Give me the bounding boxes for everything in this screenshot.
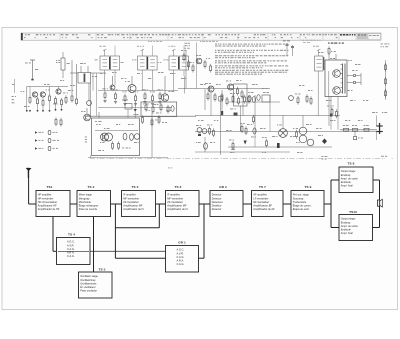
svg-text:TS 8: TS 8 — [348, 161, 355, 165]
emitter rail wire — [98, 107, 172, 109]
transistor TS3 — [161, 76, 174, 101]
diode D1 — [230, 109, 238, 116]
alignment dash — [168, 167, 172, 170]
svg-text:TS 5: TS 5 — [99, 267, 106, 271]
cluster below box A — [142, 115, 168, 124]
transistor TS9 — [333, 87, 341, 95]
transistor TS7 — [226, 81, 234, 91]
wire TS2-TS3 — [111, 203, 122, 205]
wire TS1 to TS4 — [53, 217, 57, 252]
diode dark diamond — [318, 135, 327, 144]
resistor R60 — [262, 137, 268, 148]
symbol legend — [32, 130, 60, 150]
wire GR1 to detector line — [199, 204, 205, 258]
dark labels row top right — [328, 43, 344, 44]
right edge components — [381, 44, 390, 101]
cluster below output box — [327, 106, 338, 119]
block TS5 oscillator — [79, 267, 113, 298]
resistor R56 — [293, 128, 298, 139]
svg-text:TS10: TS10 — [349, 210, 357, 214]
wire output drops — [331, 97, 338, 130]
svg-text:DetectorDetectorDétecteurDetek: DetectorDetectorDétecteurDetektorDetecto… — [212, 193, 223, 211]
electrolytic C40 — [251, 128, 256, 137]
wire speaker to TS10 — [373, 206, 380, 227]
block TS10 output stage — [339, 210, 373, 241]
svg-text:A.G.C.A.V.R.C.A.G.A.R.A.C.A.G.: A.G.C.A.V.R.C.A.G.A.R.A.C.A.G. — [67, 240, 75, 258]
block GR1 AGC rectifier — [166, 241, 199, 272]
aerial input wire — [25, 60, 38, 80]
chassis divider dash-dot — [90, 157, 393, 160]
wire mixer vertical — [151, 112, 153, 158]
legend top resistors — [55, 117, 62, 126]
service notes text — [215, 44, 289, 75]
bias resistor ladder — [102, 88, 162, 105]
driver transformer S5 — [313, 46, 324, 71]
return rail wire — [195, 151, 290, 153]
svg-text:GR 2: GR 2 — [219, 185, 227, 189]
svg-text:TS 2: TS 2 — [88, 185, 95, 189]
thermistor R64 — [229, 140, 235, 151]
pair3 side notes — [185, 43, 191, 49]
wire TS2 to TS5 — [93, 217, 95, 273]
wire vert x220 — [219, 95, 223, 155]
lower rail wire — [228, 146, 332, 148]
resistor pair on rail — [240, 123, 247, 135]
supply feed resistors — [340, 125, 377, 140]
wire x255 low — [254, 135, 256, 147]
battery label — [381, 155, 387, 158]
loudspeaker — [378, 199, 383, 207]
detector bridge — [277, 116, 287, 138]
terminal labels bottom — [322, 156, 328, 160]
wire osc vertical — [90, 100, 92, 158]
electrolytic pair — [296, 116, 307, 143]
transistor small mixer — [110, 76, 115, 90]
svg-text:TS1: TS1 — [47, 185, 53, 189]
signal rail wire — [178, 88, 270, 90]
strip sub-label — [148, 40, 321, 43]
block TS1 HF amplifier — [36, 185, 70, 217]
title/reference strip — [21, 33, 381, 40]
aerial coil — [56, 52, 70, 78]
wire TS8 to speaker — [373, 180, 380, 200]
volume control network — [228, 92, 312, 105]
block GR2 detector — [210, 185, 243, 217]
wire TS6 drop — [210, 92, 212, 116]
wire box bottom rail — [88, 157, 168, 159]
coupling components — [205, 89, 228, 116]
bandpass shield box — [141, 102, 177, 117]
block TS8 output stage — [339, 161, 373, 192]
svg-text:TS 4: TS 4 — [68, 232, 75, 236]
block TS4 AGC — [57, 232, 91, 264]
wire IF S3 drops — [142, 76, 153, 91]
svg-text:TS 3: TS 3 — [132, 185, 139, 189]
svg-text:GR 1: GR 1 — [178, 241, 186, 245]
wire AGC line through TS4 — [58, 250, 166, 252]
bus rail wire — [195, 131, 378, 133]
second front-end transistor cluster — [53, 87, 68, 111]
block TS9 driver stage — [291, 185, 324, 217]
block TS3 IF amplifier — [122, 185, 156, 217]
svg-text:A.G.C.A.V.R.C.A.G.A.R.A.C.A.G.: A.G.C.A.V.R.C.A.G.A.R.A.C.A.G. — [177, 248, 185, 266]
output transformer S6 — [325, 60, 347, 97]
electrolytic C44 — [307, 139, 314, 146]
decoupling caps top — [283, 41, 294, 57]
electrolytic main smoothing — [376, 123, 383, 134]
svg-text:TS 9: TS 9 — [305, 185, 312, 189]
wire vert x205b — [204, 137, 208, 152]
block TS7 AF amplifier — [252, 185, 284, 217]
svg-text:TS 7: TS 7 — [259, 185, 266, 189]
transistor TS6 — [205, 83, 216, 102]
base rail wire — [98, 90, 178, 92]
wire vert x255 — [254, 95, 256, 135]
pointer mark — [27, 168, 30, 178]
wire GR2-TS7 — [243, 203, 252, 205]
svg-text:Oscillator stageOscillatortrap: Oscillator stageOscillatortrapOszillator… — [80, 274, 98, 292]
AF preamp cluster — [181, 50, 212, 89]
supply rail wire — [195, 115, 340, 117]
bottom left cluster — [196, 125, 215, 138]
wire to TS10 — [331, 227, 339, 229]
wire aerial to TS1 — [29, 203, 36, 205]
oscillator coupling diode — [122, 100, 139, 119]
wire IF takeoff — [115, 204, 165, 258]
svg-text:TS 6: TS 6 — [175, 185, 182, 189]
Tol vertical label — [85, 137, 87, 143]
wire cap feed — [376, 116, 378, 141]
IF transformer S3 — [132, 46, 161, 77]
component value labels — [24, 52, 387, 153]
aerial symbol — [26, 168, 32, 204]
block TS2 mixer stage — [77, 185, 111, 217]
polarity arrow — [244, 141, 247, 145]
terminal label column — [12, 79, 17, 103]
wire vert x270 — [269, 95, 271, 112]
transistor TS8 — [333, 70, 341, 78]
dark cap C46 — [277, 143, 280, 148]
output stage stubs — [328, 46, 336, 60]
wire vert x329 — [328, 97, 330, 126]
wire ratio drop — [239, 106, 241, 132]
wire TS7-TS9 — [283, 203, 291, 205]
transistor TS1 stage cluster — [21, 87, 69, 112]
ratio detector box — [234, 84, 248, 106]
wire to TS8 — [331, 179, 339, 181]
transistor left of box — [81, 108, 90, 121]
loudspeaker terminals — [347, 70, 361, 85]
wire vert x243 — [242, 95, 244, 116]
wire TS3-TS6 — [156, 203, 166, 205]
detector diodes — [248, 92, 260, 102]
transistor TS2 — [125, 76, 136, 93]
wire S5 drops — [318, 71, 329, 116]
IF transformer S4 — [164, 46, 195, 77]
oscillator shield box TS5 — [92, 112, 140, 156]
wire x270 low — [269, 112, 271, 132]
wire IF S2 drops — [105, 76, 115, 91]
wire tuner verticals — [91, 73, 97, 116]
wire notes edge — [196, 43, 198, 89]
wire IF S4 drops — [174, 76, 185, 94]
wire TS1-TS2 — [70, 203, 77, 205]
supply rail wire mid — [86, 115, 196, 117]
IF transformer S2 — [95, 46, 124, 77]
wire TS9 to output split — [324, 180, 331, 228]
wire TS6-GR2 — [199, 203, 210, 205]
block TS6 IF amplifier — [166, 185, 200, 217]
resistor lower1 — [253, 115, 255, 124]
tuner coil unit S1 — [70, 60, 106, 106]
wire IF return — [115, 204, 159, 228]
